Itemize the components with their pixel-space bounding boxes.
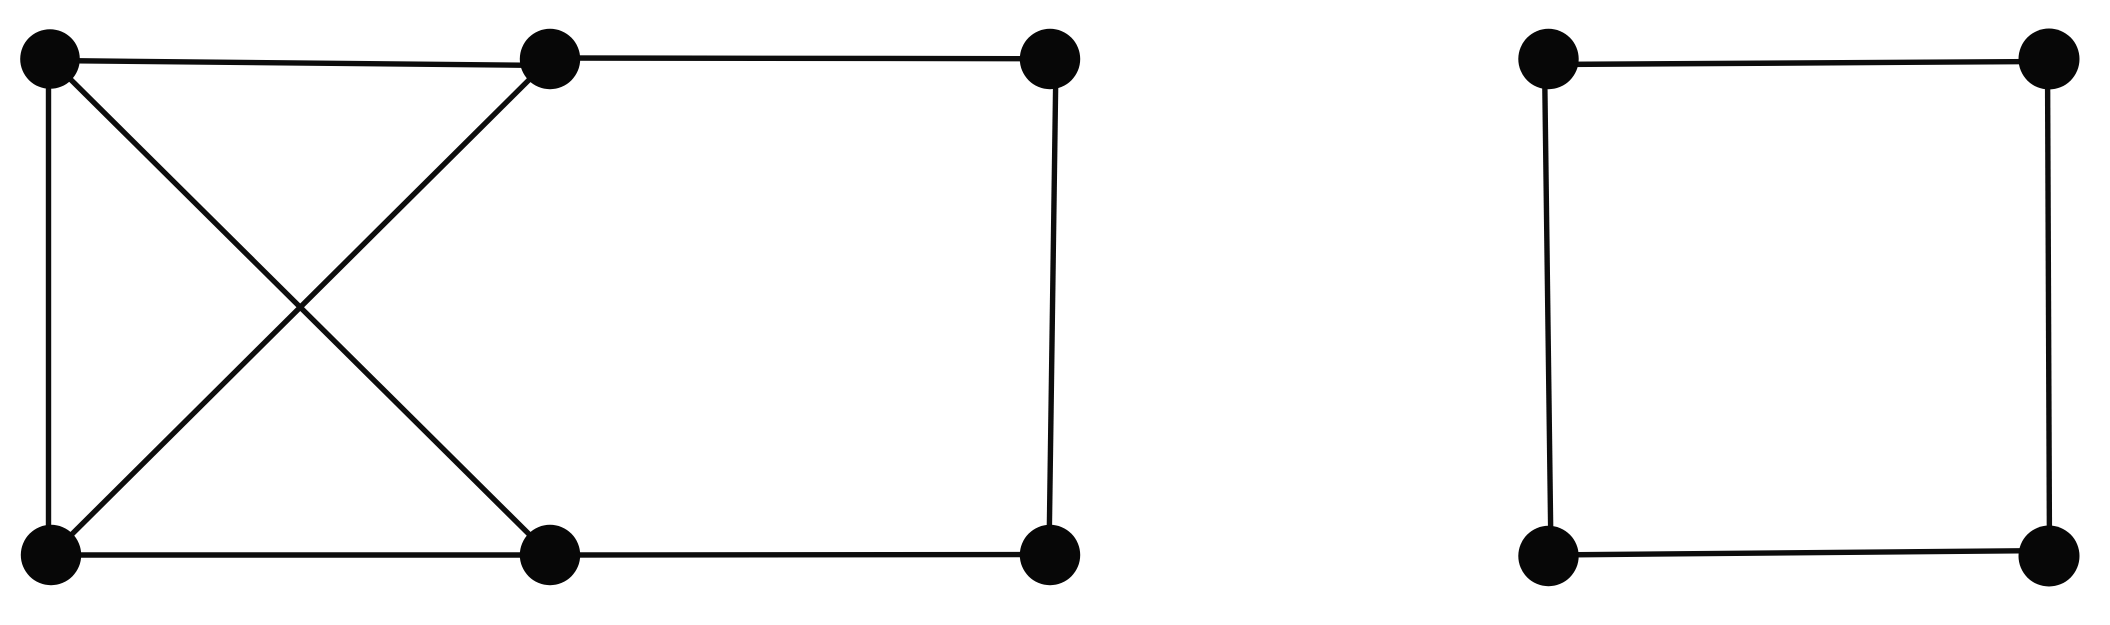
node F (bottom-right vertex, left graph)	[1020, 525, 1080, 585]
node D (bottom-left vertex, left graph)	[21, 525, 81, 585]
wire edge I-J (right square bottom)	[1549, 551, 2050, 556]
node I (bottom-left vertex, right graph)	[1518, 526, 1578, 586]
wire edge A-B (top-left to top-middle)	[50, 61, 550, 66]
wire edge A-D (left vertical)	[46, 59, 51, 555]
wire edge A-E (diagonal top-left to bottom-middle)	[50, 59, 550, 555]
wire edge D-B (diagonal bottom-left to top-middle)	[51, 59, 550, 555]
wire edge H-J (right square right vertical)	[2048, 60, 2050, 555]
wire edge D-E (bottom-left to bottom-middle)	[51, 552, 550, 557]
node H (top-right vertex, right graph)	[2019, 29, 2080, 90]
wire edge C-F (right vertical of left graph)	[1049, 60, 1056, 554]
wire edge B-C (top-middle to top-right)	[550, 55, 1052, 61]
wire edge E-F (bottom-middle to bottom-right)	[550, 552, 1050, 558]
wire edge G-I (right square left vertical)	[1545, 60, 1552, 555]
node A (top-left vertex, left graph)	[20, 29, 80, 89]
node E (bottom-middle vertex, left graph)	[520, 525, 580, 585]
node B (top-middle vertex, left graph)	[520, 29, 580, 89]
node J (bottom-right vertex, right graph)	[2019, 526, 2080, 587]
node G (top-left vertex, right graph)	[1518, 29, 1578, 89]
wire edge G-H (right square top)	[1548, 62, 2049, 65]
node C (top-right vertex, left graph)	[1020, 29, 1080, 89]
